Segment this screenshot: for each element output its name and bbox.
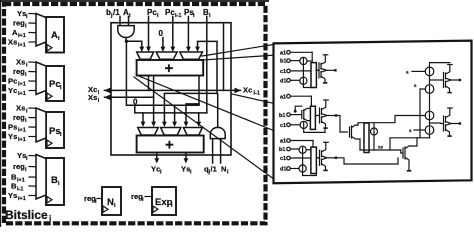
input labels of B_i: Ys_i reg_i B_i+1 B_i-1 Ys_i+1 xyxy=(8,151,36,202)
clock triangle of A_i xyxy=(47,45,52,51)
terminal d3 xyxy=(280,167,299,173)
mux M1 xyxy=(137,52,154,59)
wire T1 source to rail xyxy=(359,139,361,150)
chain wire C3-C4 xyxy=(429,120,431,126)
transistor Q2a xyxy=(302,108,311,120)
clock triangle of B_i xyxy=(47,197,52,203)
input labels of A_i: Ys_i reg_i A_i+1 Xs_i+1 xyxy=(8,9,36,49)
terminal b2 xyxy=(279,113,301,119)
svg-text:/1: /1 xyxy=(211,165,218,174)
datapath enclosure box xyxy=(111,23,231,155)
wire into pass box 2 xyxy=(310,96,312,106)
svg-text:Ys: Ys xyxy=(17,151,26,160)
wire into pass box 1 xyxy=(311,52,313,62)
transistor T1 xyxy=(350,125,361,139)
svg-text:Ps: Ps xyxy=(49,126,61,137)
pass transistor Q3a xyxy=(299,146,306,153)
terminal b1 xyxy=(280,59,300,65)
pass transistor Q1b xyxy=(300,77,307,84)
wire B_i down then to mux M3 xyxy=(198,17,207,47)
svg-text:c1: c1 xyxy=(280,123,286,129)
wire ADD1 sum out down to mux M4 xyxy=(153,76,155,122)
pass transistor Q1a xyxy=(300,57,307,64)
chain transistor C1 xyxy=(425,67,434,76)
register N_i xyxy=(102,187,121,215)
label Bitslice_i xyxy=(5,208,51,223)
svg-text:a1: a1 xyxy=(280,94,286,100)
wire carry tap to mux M6 xyxy=(186,104,199,122)
svg-text:Yc: Yc xyxy=(8,86,17,95)
svg-text:+: + xyxy=(165,137,174,154)
arrow Xc_i (left) xyxy=(104,88,111,94)
arrow Xc_i-1 (right) xyxy=(235,88,242,94)
svg-text:c1: c1 xyxy=(280,69,286,75)
callout line E to detail panel middle xyxy=(231,94,274,104)
bus wire right side xyxy=(223,23,225,91)
wire ADD1 carry out down to carry line xyxy=(148,76,150,91)
svg-text:reg: reg xyxy=(13,67,25,76)
wire 0 to mux M2 xyxy=(162,38,164,47)
inverter U1 (CMOS pair with VDD and GND) xyxy=(316,55,337,83)
gate wire of C2 with vertical feed xyxy=(414,83,425,138)
node J1 junction dot xyxy=(125,40,128,43)
svg-text:Xc: Xc xyxy=(243,86,252,95)
chain transistor C2 xyxy=(425,85,434,94)
inverter U5 (output buffer, bottom) xyxy=(441,108,462,136)
wire from G1 output to node J1 xyxy=(125,37,127,41)
top port labels: b_j/1 A_i Pc_i Pc_i-1 Ps_i B_i xyxy=(106,8,211,19)
svg-text:i+1: i+1 xyxy=(18,33,26,39)
terminal d1 xyxy=(280,78,300,84)
detail panel frame xyxy=(274,41,472,184)
wire Xs_i sum line xyxy=(105,96,154,98)
wire U2 output to transistor T1 gate xyxy=(336,116,347,133)
pass box 2 xyxy=(310,106,315,129)
terminal c2 xyxy=(280,123,300,129)
svg-text:N: N xyxy=(221,165,226,174)
input mux of Ps_i xyxy=(36,108,46,142)
wire C5 top to row wire xyxy=(373,123,375,128)
pass box 1 xyxy=(311,63,316,88)
wire Q2b bottom rail xyxy=(304,128,325,132)
svg-text:i-1: i-1 xyxy=(175,13,181,19)
svg-text:Ys: Ys xyxy=(181,165,190,174)
svg-text:i-1: i-1 xyxy=(254,91,260,97)
svg-text:Ps: Ps xyxy=(8,123,17,132)
transistor T2 xyxy=(403,146,411,171)
clock triangle of Exp_i xyxy=(153,206,158,212)
wire rail into T2 xyxy=(401,150,403,153)
terminal a3 xyxy=(280,139,313,145)
wire pass box 2 to inverter U2 xyxy=(315,115,319,117)
svg-text:0: 0 xyxy=(133,98,138,107)
mux M2 xyxy=(156,52,177,59)
svg-text:i+1: i+1 xyxy=(18,43,26,49)
mux M4 xyxy=(138,128,159,136)
svg-text:Pc: Pc xyxy=(8,77,17,86)
wire Pc_i-1 to mux M2 xyxy=(172,17,174,47)
svg-text:Ys: Ys xyxy=(8,132,17,141)
mux M6 xyxy=(183,128,202,136)
svg-text:/1: /1 xyxy=(113,8,120,17)
svg-text:Ys: Ys xyxy=(17,9,26,18)
adder ADD1 xyxy=(137,60,204,77)
terminal c1 xyxy=(280,69,311,75)
input label reg_i of N_i xyxy=(84,194,102,205)
terminal c3 xyxy=(280,156,311,162)
wire Q1b bottom rail xyxy=(303,84,316,87)
svg-text:Pc: Pc xyxy=(147,8,157,17)
gate wire and label of C4 xyxy=(409,128,425,133)
clock triangle of Pc_i xyxy=(47,93,52,99)
chain transistor C4 xyxy=(425,126,434,135)
clock triangle of Ps_i xyxy=(47,140,52,146)
svg-text:d1: d1 xyxy=(280,167,286,173)
svg-text:Yc: Yc xyxy=(151,165,160,174)
pass box 3 xyxy=(311,147,317,173)
svg-text:B: B xyxy=(51,175,58,186)
inverter U4 (output buffer, top) xyxy=(441,65,462,93)
inverter U3 (CMOS pair with VDD and GND) xyxy=(317,142,338,170)
callout line A from mux M3 to detail panel xyxy=(202,45,274,57)
gate wire and label of C1 xyxy=(406,69,425,74)
AND gate G2 (q_j/1 & N_i), points up xyxy=(210,127,225,138)
input mux of B_i xyxy=(36,155,46,200)
svg-text:i+1: i+1 xyxy=(17,178,25,184)
callout line C from ADD1 bottom-left to detail panel xyxy=(139,76,273,130)
wire C5 bottom to rail xyxy=(373,135,375,150)
chain wire C1-C2 xyxy=(429,76,431,85)
chain transistor C3 xyxy=(425,111,434,120)
wire pass box 1 to inverter U1 xyxy=(316,69,319,71)
wire ADD1 right carry tap xyxy=(198,76,200,104)
wire Pc_i to mux M1 xyxy=(148,17,150,47)
register Pc_i xyxy=(36,62,64,101)
wire N_i input up into G2 xyxy=(220,139,222,163)
svg-text:xs: xs xyxy=(378,145,384,150)
tap wire chain to inverter U5 xyxy=(430,122,441,124)
wire b_j/1 into AND gate G1 xyxy=(119,17,121,26)
register B_i xyxy=(36,155,64,206)
rail wire (lower) xyxy=(360,149,401,151)
chain wire C2-C3 xyxy=(429,93,431,111)
terminal b3 xyxy=(279,147,299,153)
register Ps_i xyxy=(36,108,64,148)
wire pass box 3 to inverter U3 xyxy=(316,157,319,159)
svg-text:i+1: i+1 xyxy=(18,91,26,97)
input labels of Ps_i: Xs_i reg_i Ps_i+1 Ys_i+1 xyxy=(8,104,36,144)
wire q_j/1 input up into G2 xyxy=(212,139,214,163)
input mux of A_i xyxy=(36,14,46,47)
svg-text:0: 0 xyxy=(159,29,164,38)
wire B_i branch to mux M5 xyxy=(164,93,217,121)
svg-text:i+1: i+1 xyxy=(18,196,26,202)
terminal a2 xyxy=(280,94,311,100)
pass transistor C5 xyxy=(371,128,378,135)
svg-text:d1: d1 xyxy=(280,78,286,84)
svg-text:i+1: i+1 xyxy=(18,137,26,143)
svg-text:A: A xyxy=(51,30,58,41)
svg-text:Exp: Exp xyxy=(155,197,173,208)
wire T2 drain to rail xyxy=(411,138,417,146)
svg-text:c1: c1 xyxy=(280,156,286,162)
stub above Q2a xyxy=(294,106,302,112)
inverter U2 (CMOS pair with VDD and GND) xyxy=(317,100,338,128)
wire 0 to mux M4 xyxy=(135,106,207,113)
svg-text:Pc: Pc xyxy=(165,8,175,17)
wire T1 drain up to row wire xyxy=(358,116,425,126)
svg-text:Pc: Pc xyxy=(49,79,61,90)
wire Q3b bottom rail xyxy=(303,172,317,175)
adder ADD2 xyxy=(137,136,204,154)
register A_i xyxy=(36,14,64,53)
svg-text:a1: a1 xyxy=(280,139,286,145)
wire G1 output down to distribution row xyxy=(126,41,199,105)
svg-text:Ys: Ys xyxy=(8,191,17,200)
svg-text:b1: b1 xyxy=(280,59,286,65)
wire Q3a to pass box 3 xyxy=(306,149,311,151)
svg-text:i-1: i-1 xyxy=(17,187,23,193)
svg-text:reg: reg xyxy=(13,162,25,171)
svg-text:a1: a1 xyxy=(280,50,286,56)
clock triangle of N_i xyxy=(103,206,108,212)
wire Ps_i to mux M3 xyxy=(187,17,189,47)
wire between Q1a and Q1b xyxy=(302,65,304,78)
svg-text:i+1: i+1 xyxy=(18,82,26,88)
svg-text:Xs: Xs xyxy=(88,93,97,102)
wire B_i lower branch to mux M6 xyxy=(206,41,208,113)
wire Q1a to pass box 1 xyxy=(307,60,311,62)
AND gate G1 (b_j/1 & A_i), points down xyxy=(118,26,134,38)
register Exp_i xyxy=(152,187,176,215)
chain top wire to VDD xyxy=(430,63,450,68)
wire G1 output to mux M1 xyxy=(126,41,141,47)
pass box 4 xyxy=(364,123,369,153)
svg-text:N: N xyxy=(107,197,114,208)
chain bottom wire to rail xyxy=(429,134,431,138)
svg-text:Xs: Xs xyxy=(16,104,25,113)
ground stub of T2 xyxy=(407,170,412,172)
wire U3 output stub xyxy=(336,158,398,164)
callout line B from adder ADD1 to detail panel xyxy=(203,55,273,60)
wire into pass box 3 xyxy=(312,141,314,148)
callout line D from ADD1 bottom-left to detail panel bottom corner xyxy=(134,77,274,179)
arrow Xs_i (left) xyxy=(104,95,111,101)
mux M3 xyxy=(180,52,203,59)
input label reg_i of Exp_i xyxy=(131,192,152,203)
svg-text:+: + xyxy=(165,60,174,77)
rail wire (upper) to chain bottom xyxy=(390,138,430,150)
svg-text:Xs: Xs xyxy=(16,58,25,67)
svg-text:b1: b1 xyxy=(279,113,285,119)
svg-text:reg: reg xyxy=(13,113,25,122)
mux M5 xyxy=(161,128,181,136)
wire B_i branch right along y=41.4 xyxy=(207,41,217,93)
pass transistor Q3b xyxy=(299,165,306,172)
terminal a1 xyxy=(280,50,312,56)
pass transistor Q2b xyxy=(300,121,307,128)
svg-text:Bitslice: Bitslice xyxy=(5,208,48,222)
svg-text:b1: b1 xyxy=(279,147,285,153)
svg-text:reg: reg xyxy=(13,19,25,28)
wire between Q3a and Q3b xyxy=(302,153,304,165)
wire G2 output up xyxy=(217,93,219,127)
wire ADD2 carry out Yc_i xyxy=(156,153,158,159)
dashed border of Bitslice_i block xyxy=(4,4,266,223)
tap wire chain to inverter U4 xyxy=(430,79,441,81)
svg-text:i: i xyxy=(49,214,51,223)
svg-text:Xs: Xs xyxy=(8,38,17,47)
input labels of Pc_i: Xs_i reg_i Pc_i+1 Yc_i+1 xyxy=(8,58,36,98)
input mux of Pc_i xyxy=(36,62,46,95)
wire ADD2 sum out Ys_i xyxy=(185,153,187,159)
wire Xc_i / Xc_i-1 carry line xyxy=(105,89,241,91)
wire A_i into AND gate G1 xyxy=(128,17,130,26)
svg-text:i+1: i+1 xyxy=(18,128,26,134)
